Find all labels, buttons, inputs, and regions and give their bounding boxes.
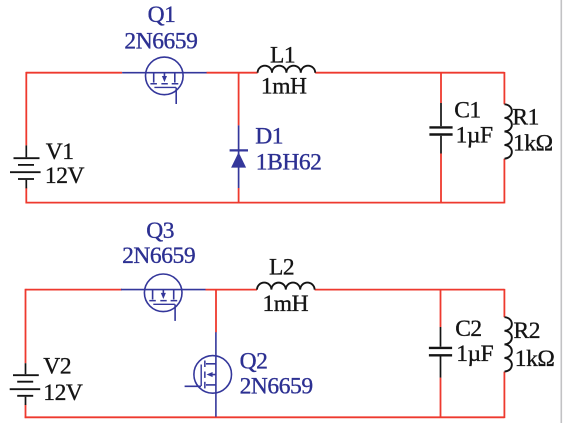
svg-text:2N6659: 2N6659: [240, 373, 313, 399]
svg-text:D1: D1: [255, 123, 283, 149]
svg-text:Q2: Q2: [240, 349, 268, 375]
svg-text:C2: C2: [455, 316, 482, 342]
svg-text:C1: C1: [454, 98, 481, 124]
svg-text:1kΩ: 1kΩ: [513, 131, 553, 157]
svg-text:1BH62: 1BH62: [256, 149, 322, 175]
svg-text:L2: L2: [269, 254, 294, 280]
svg-text:V2: V2: [43, 354, 71, 380]
svg-text:1mH: 1mH: [263, 291, 309, 317]
svg-text:V1: V1: [46, 139, 74, 165]
svg-text:L1: L1: [270, 42, 295, 68]
svg-text:1µF: 1µF: [456, 341, 493, 367]
svg-text:12V: 12V: [43, 380, 83, 406]
svg-text:2N6659: 2N6659: [122, 243, 195, 269]
svg-text:1µF: 1µF: [456, 123, 493, 149]
svg-text:1kΩ: 1kΩ: [515, 346, 555, 372]
svg-text:2N6659: 2N6659: [124, 29, 197, 55]
svg-text:R1: R1: [512, 104, 539, 130]
svg-text:1mH: 1mH: [261, 74, 307, 100]
svg-text:12V: 12V: [45, 163, 85, 189]
svg-text:Q1: Q1: [148, 2, 176, 28]
svg-text:R2: R2: [514, 318, 541, 344]
svg-text:Q3: Q3: [146, 218, 174, 244]
